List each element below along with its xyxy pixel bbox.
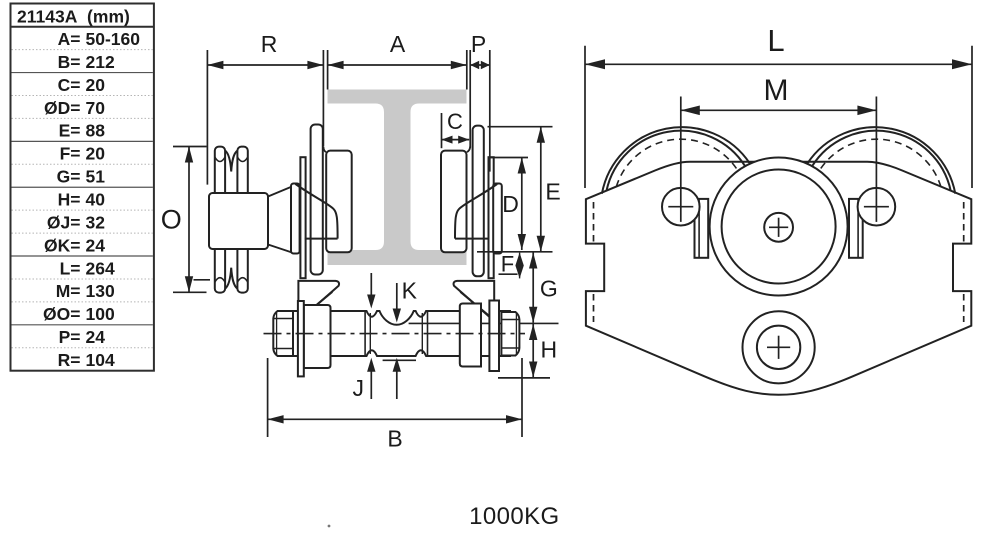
svg-text:L=: L= [60,258,81,278]
svg-text:M: M [764,74,789,107]
plate hidden (dashed) contour right [963,202,965,242]
dim G [532,253,534,323]
I-beam (gray) [328,90,467,266]
svg-text:104: 104 [86,350,115,370]
right axle stub [493,184,502,254]
trolley wheel left (side view arcs) [602,127,750,194]
svg-text:24: 24 [86,327,106,347]
svg-text:P=: P= [59,327,81,347]
left wheel bracket [695,199,709,258]
svg-text:F: F [501,252,514,277]
svg-text:88: 88 [86,121,106,141]
G/H reference line from saddle [409,322,559,324]
svg-text:G=: G= [57,167,81,187]
stray mark [328,525,331,528]
bushing bar left [300,157,305,278]
svg-text:M=: M= [56,281,81,301]
right side plate (edge) [473,126,484,277]
svg-text:L: L [767,23,784,58]
svg-text:70: 70 [86,98,106,118]
svg-text:E: E [545,179,560,205]
svg-text:R: R [261,31,278,57]
dim M [680,97,682,222]
right bushing bar [489,157,494,278]
sheave right flange [237,147,247,293]
sheave hub block [209,193,268,249]
sheave lower tick [194,279,211,281]
svg-text:E=: E= [59,121,81,141]
svg-text:130: 130 [86,281,115,301]
saddle hidden line [383,359,416,361]
left shaft boss [304,305,331,368]
side plate [586,162,971,395]
right shaft boss [460,304,481,367]
svg-text:40: 40 [86,190,106,210]
shaft body [283,311,510,356]
right wheel bracket [849,199,863,258]
svg-text:C: C [447,109,463,134]
svg-text:F=: F= [60,144,81,164]
dim P [469,50,471,148]
svg-text:R=: R= [58,350,81,370]
svg-text:B=: B= [58,52,81,72]
svg-text:100: 100 [86,304,115,324]
svg-text:1000KG: 1000KG [469,503,559,530]
svg-text:20: 20 [86,144,106,164]
taper cone to plate [268,187,292,197]
svg-text:ØK=: ØK= [44,235,80,255]
dim B [267,358,269,437]
left side plate (edge) [311,125,323,275]
svg-text:264: 264 [86,258,115,278]
dim A [327,50,329,90]
left trolley wheel [326,151,352,253]
plate hidden (dashed) contour left [593,202,595,242]
svg-text:ØD=: ØD= [44,98,80,118]
sheave groove bottom [225,268,237,289]
svg-text:51: 51 [86,167,106,187]
svg-text:32: 32 [86,212,106,232]
left washer [298,301,304,376]
dimension table [11,4,154,371]
shaft centerline [264,333,526,335]
dim H [532,324,534,378]
center pin circle [764,213,793,242]
wheel corner connectors [467,147,470,153]
right axle circle [858,188,896,226]
left hex nut [273,311,293,356]
dim J leaders [370,366,372,399]
central hub outer [710,158,848,296]
svg-text:ØJ=: ØJ= [47,212,81,232]
right trolley wheel [441,151,467,253]
lower suspension circle [743,311,815,383]
dim C [441,113,443,148]
axle stub left [291,184,300,254]
right wheel taper curve [455,184,497,239]
svg-text:C=: C= [58,75,81,95]
left wheel taper curve [296,184,338,239]
svg-text:H=: H= [58,190,81,210]
svg-text:21143A (mm): 21143A (mm) [17,6,130,26]
sheave groove top [225,151,237,172]
svg-text:B: B [387,426,402,452]
shaft shoulder lines [364,311,366,356]
dim L [584,46,586,188]
svg-text:O: O [161,204,182,234]
dim K leaders [370,273,372,300]
svg-text:A: A [390,31,406,57]
svg-text:D: D [502,191,519,217]
dim E [488,126,553,128]
right hex nut [501,312,519,356]
right strap bracket [454,281,495,317]
svg-text:20: 20 [86,75,106,95]
dim O [173,146,207,148]
svg-text:A=: A= [58,29,81,49]
dim F [515,253,523,279]
svg-text:24: 24 [86,235,106,255]
sheave flange inner arcs [215,157,248,162]
svg-text:K: K [402,278,418,304]
svg-text:50-160: 50-160 [86,29,141,49]
svg-text:J: J [352,375,364,401]
svg-text:P: P [471,31,486,57]
svg-text:G: G [540,276,558,302]
left axle circle [662,188,700,226]
trolley wheel right (side view arcs) [807,127,955,194]
dim R [206,50,208,185]
left strap bracket [298,281,339,317]
dim D [490,157,529,159]
right washer [489,301,499,372]
svg-text:212: 212 [86,52,115,72]
svg-text:ØO=: ØO= [43,304,80,324]
sheave left flange [215,147,225,293]
central hub inner [722,170,836,284]
svg-text:H: H [540,337,557,363]
